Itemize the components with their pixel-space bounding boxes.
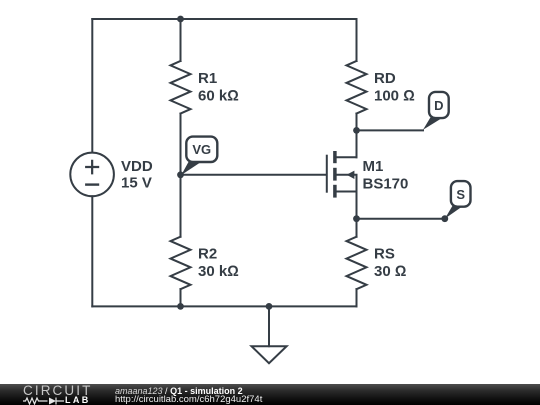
transistor M1 body arrow xyxy=(347,171,355,179)
wire: source stub to label S xyxy=(357,218,445,220)
svg-text:100 Ω: 100 Ω xyxy=(374,87,415,104)
wire: R1-R2 middle segment (node VG) xyxy=(180,114,182,237)
CircuitLab logo text xyxy=(23,384,92,398)
ground xyxy=(252,346,287,363)
svg-text:RS: RS xyxy=(374,246,395,263)
svg-text:30 Ω: 30 Ω xyxy=(374,263,406,280)
svg-text:BS170: BS170 xyxy=(363,175,409,192)
footer bar xyxy=(0,384,540,405)
label R1 value xyxy=(198,70,239,104)
resistor R1 xyxy=(171,61,191,114)
wire: RS bottom lead xyxy=(356,289,358,306)
svg-text:VG: VG xyxy=(192,142,211,157)
wire: RD top lead xyxy=(356,19,358,61)
svg-text:S: S xyxy=(456,187,465,202)
svg-text:60 kΩ: 60 kΩ xyxy=(198,87,239,104)
wire: drain node to M1 source vertical xyxy=(356,192,358,237)
resistor RS xyxy=(347,237,367,290)
resistor RD xyxy=(347,61,367,114)
resistor R2 xyxy=(171,237,191,290)
svg-text:15 V: 15 V xyxy=(121,175,152,192)
svg-text:R1: R1 xyxy=(198,70,217,87)
svg-text:M1: M1 xyxy=(363,158,384,175)
svg-text:30 kΩ: 30 kΩ xyxy=(198,263,239,280)
wire: R1 top lead xyxy=(180,19,182,61)
CircuitLab logo squiggle (resistor + diode) xyxy=(23,396,65,405)
node D callout xyxy=(423,92,449,130)
label R2 value xyxy=(198,246,239,280)
node S callout xyxy=(445,181,471,219)
svg-text:VDD: VDD xyxy=(121,158,153,175)
wire: gate wire from node VG to M1 xyxy=(181,174,326,176)
svg-text:D: D xyxy=(434,98,443,113)
wire: RD bottom lead to drain node xyxy=(356,114,358,158)
voltage source VDD xyxy=(70,153,114,197)
svg-text:RD: RD xyxy=(374,70,396,87)
wire: top rail xyxy=(92,18,356,20)
svg-text:R2: R2 xyxy=(198,246,217,263)
label RS value xyxy=(374,246,406,280)
wire: drain stub to label D xyxy=(357,129,424,131)
footer url line xyxy=(115,394,262,405)
node junction dots xyxy=(177,16,448,310)
transistor M1 (NMOS BS170) xyxy=(327,130,357,218)
wire: R2 bottom lead xyxy=(180,289,182,306)
wire: bottom rail xyxy=(92,305,356,307)
wire: ground stem xyxy=(268,306,270,346)
footer title line xyxy=(115,386,243,396)
label M1 value xyxy=(363,158,409,192)
node VG callout xyxy=(181,137,217,175)
label RD value xyxy=(374,70,415,104)
wire: left branch lower (VDD bottom lead) xyxy=(91,196,93,306)
wire: left branch upper (VDD top lead) xyxy=(91,19,93,153)
label VDD value xyxy=(121,158,153,192)
